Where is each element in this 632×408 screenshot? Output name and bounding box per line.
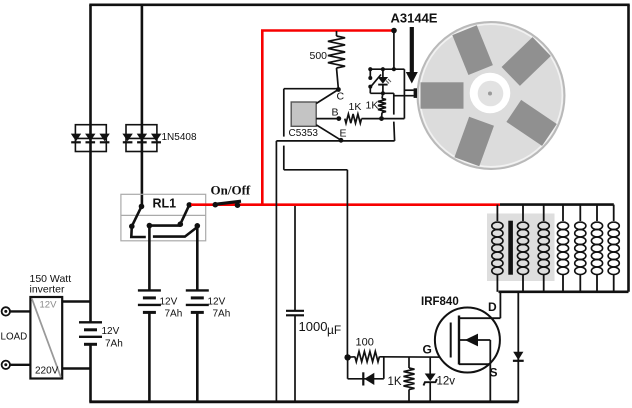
svg-text:µF: µF (327, 323, 341, 337)
svg-text:12V: 12V (102, 326, 120, 337)
svg-text:220V: 220V (35, 366, 59, 377)
svg-text:1K: 1K (366, 100, 379, 112)
svg-text:12V: 12V (40, 300, 58, 311)
svg-text:C5353: C5353 (289, 128, 319, 139)
svg-text:IRF840: IRF840 (421, 296, 459, 308)
svg-text:100: 100 (356, 337, 374, 349)
svg-text:A3144E: A3144E (391, 11, 438, 26)
svg-text:12V: 12V (208, 297, 226, 308)
svg-text:G: G (423, 343, 432, 357)
svg-text:7Ah: 7Ah (213, 309, 231, 320)
svg-text:1K: 1K (388, 376, 402, 388)
svg-text:1N5408: 1N5408 (162, 132, 197, 143)
svg-text:LOAD: LOAD (1, 332, 28, 343)
svg-text:RL1: RL1 (153, 197, 177, 211)
svg-text:1000: 1000 (299, 319, 328, 334)
svg-text:C: C (337, 91, 345, 103)
svg-text:1K: 1K (349, 101, 362, 113)
svg-text:500: 500 (310, 50, 328, 62)
svg-text:S: S (490, 366, 498, 380)
svg-text:B: B (332, 107, 339, 119)
svg-text:7Ah: 7Ah (165, 309, 183, 320)
svg-text:E: E (340, 128, 347, 140)
svg-text:12V: 12V (160, 297, 178, 308)
svg-text:inverter: inverter (30, 284, 66, 296)
svg-text:D: D (488, 300, 497, 314)
svg-text:12v: 12v (437, 376, 456, 388)
svg-text:On/Off: On/Off (211, 183, 251, 198)
svg-text:7Ah: 7Ah (105, 339, 123, 350)
